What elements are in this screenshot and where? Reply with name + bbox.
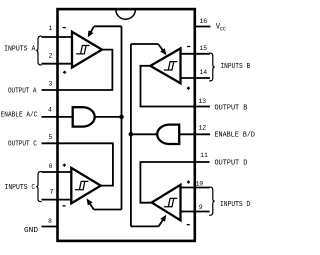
plus mark U1D (pin 10)	[187, 180, 190, 183]
wire output A: pin3 to U1A output	[42, 50, 113, 90]
svg-text:GND: GND	[24, 227, 38, 235]
svg-text:ENABLE A/C: ENABLE A/C	[1, 112, 38, 120]
svg-text:INPUTS D: INPUTS D	[220, 201, 250, 209]
wire B/D bus bottom to U1D enable arrow	[131, 225, 159, 227]
svg-text:1: 1	[48, 25, 52, 32]
brace INPUTS B (pins 15-14)	[209, 53, 215, 81]
op-amp U1C (receiver C)	[71, 168, 101, 203]
wire pin6 to U1C noninverting input	[42, 171, 72, 173]
svg-text:INPUTS B: INPUTS B	[220, 63, 250, 71]
svg-text:13: 13	[198, 98, 206, 105]
enable arrow into U1D	[159, 215, 167, 227]
svg-text:OUTPUT A: OUTPUT A	[8, 87, 37, 95]
wire pin10 to U1D noninverting input	[181, 187, 210, 189]
op-amp U1B (receiver B)	[150, 48, 180, 83]
enable gate G2 (B/D)	[157, 125, 179, 144]
wire pin14 to U1B noninverting input	[181, 77, 211, 79]
minus mark U1A (pin 1)	[63, 27, 66, 29]
svg-text:5: 5	[48, 134, 52, 141]
wire pin4 to enable gate A/C	[42, 116, 73, 118]
svg-text:7: 7	[50, 189, 54, 196]
svg-text:6: 6	[49, 163, 53, 170]
wire pin1 to U1A inverting input	[42, 36, 73, 38]
svg-text:3: 3	[48, 80, 52, 87]
svg-text:16: 16	[199, 18, 207, 25]
svg-text:2: 2	[48, 52, 52, 59]
svg-text:8: 8	[48, 218, 52, 225]
svg-text:ENABLE B/D: ENABLE B/D	[215, 132, 255, 140]
wire pin16 VCC stub	[194, 26, 210, 28]
junction dot: G2 output on B/D bus	[129, 132, 134, 137]
plus mark U1B (pin 14)	[187, 87, 190, 90]
minus mark U1B (pin 15)	[187, 46, 190, 48]
wire pin7 to U1C inverting input	[42, 199, 72, 201]
enable arrow into U1B	[158, 44, 166, 55]
wire pin15 to U1B inverting input	[181, 53, 211, 55]
pin-1 index notch	[116, 10, 135, 19]
wire output B: U1B output to pin13	[141, 66, 211, 107]
wire pin9 to U1D inverting input	[181, 211, 210, 213]
svg-text:10: 10	[196, 181, 204, 188]
wire A/C bus bottom to U1C enable arrow	[94, 209, 122, 211]
IC package body U1	[58, 9, 195, 241]
svg-text:11: 11	[200, 152, 208, 159]
enable gate G1 (A/C)	[73, 107, 95, 126]
svg-text:12: 12	[198, 125, 206, 132]
wire pin2 to U1A noninverting input	[42, 63, 73, 65]
junction dot: G1 output on A/C bus	[119, 115, 124, 120]
wire output D: U1D output to pin11	[140, 162, 209, 203]
wire B/D enable bus (vertical)	[130, 44, 132, 226]
svg-text:14: 14	[199, 69, 207, 76]
svg-text:15: 15	[199, 45, 207, 52]
svg-text:INPUTS A: INPUTS A	[4, 46, 36, 54]
svg-text:4: 4	[48, 107, 52, 114]
plus mark U1C (pin 6)	[63, 164, 66, 167]
svg-text:OUTPUT B: OUTPUT B	[215, 104, 248, 112]
wire G1 output to A/C bus	[95, 116, 122, 118]
svg-text:CC: CC	[220, 25, 227, 32]
enable arrow into U1A	[88, 26, 94, 37]
op-amp U1A (receiver A)	[72, 32, 102, 68]
minus mark U1C (pin 7)	[63, 205, 66, 207]
plus mark U1A (pin 2)	[63, 71, 66, 74]
wire G2 output to B/D bus	[131, 133, 157, 135]
wire output C: pin5 to U1C output	[42, 143, 113, 185]
wire A/C bus top to U1A enable arrow	[94, 25, 122, 27]
wire B/D bus top to U1B enable arrow	[131, 43, 158, 45]
minus mark U1D (pin 9)	[187, 224, 190, 226]
op-amp U1D (receiver D)	[152, 185, 181, 221]
svg-text:OUTPUT D: OUTPUT D	[215, 160, 248, 168]
svg-text:9: 9	[199, 204, 203, 211]
brace INPUTS A (pins 1-2)	[36, 36, 42, 65]
svg-text:INPUTS C: INPUTS C	[5, 184, 36, 192]
brace INPUTS C (pins 6-7)	[36, 172, 42, 202]
wire pin8 GND stub	[42, 226, 58, 228]
wire A/C enable bus (vertical)	[121, 26, 123, 209]
enable arrow into U1C	[87, 198, 94, 209]
wire pin12 to enable gate B/D	[179, 133, 210, 135]
svg-text:OUTPUT C: OUTPUT C	[8, 141, 37, 149]
brace INPUTS D (pins 10-9)	[209, 187, 215, 215]
